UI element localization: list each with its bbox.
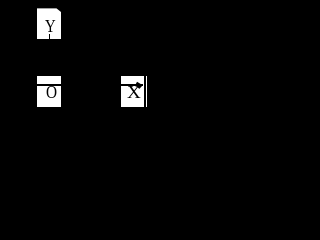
label Y	[45, 17, 56, 35]
X-axis line (black; visible only where it crosses white boxes)	[30, 84, 143, 86]
X label box (white fill, clipped by image edge)	[121, 76, 147, 108]
O label box (origin, white fill)	[37, 76, 61, 108]
Y label box (white fill, top-right corner clipped by axis arrowhead)	[37, 8, 61, 39]
label X	[127, 83, 142, 101]
X-axis arrowhead	[134, 80, 144, 90]
Y-axis line segment (visible below label Y inside box)	[49, 34, 50, 40]
text-box border line at right (clipped object edge)	[144, 76, 146, 108]
label O	[46, 83, 58, 101]
